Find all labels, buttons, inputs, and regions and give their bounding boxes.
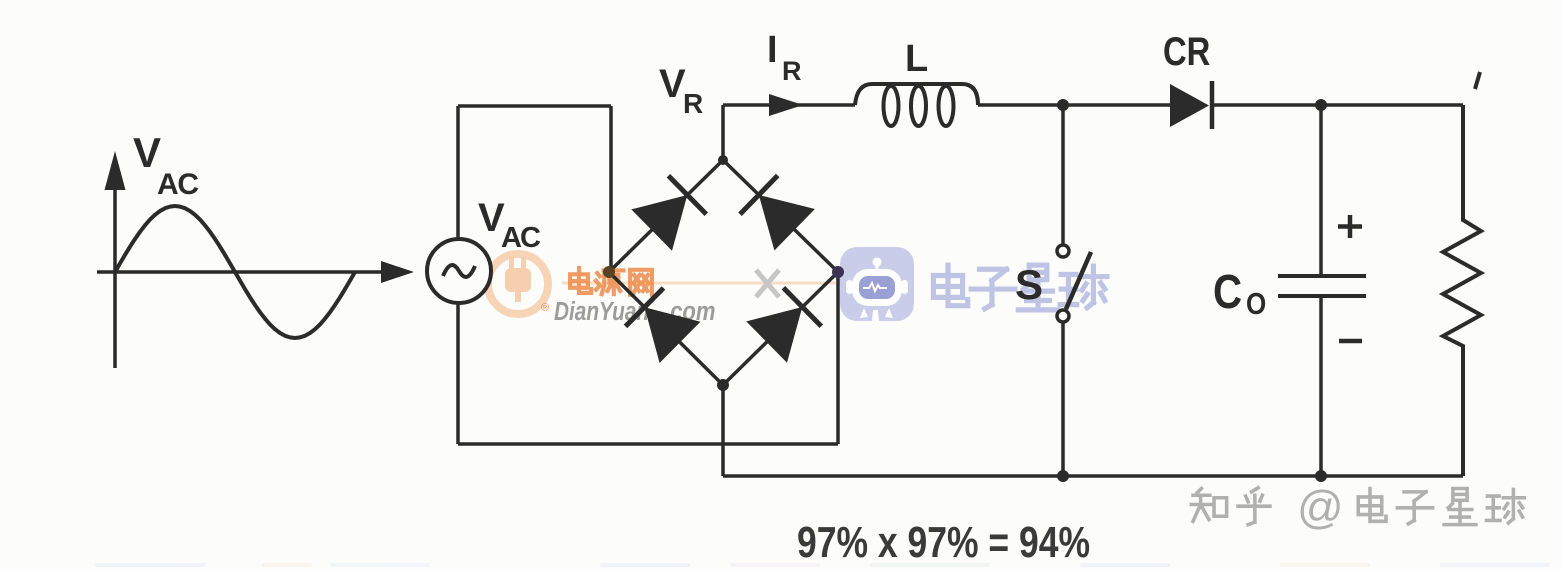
svg-text:AC: AC: [501, 222, 541, 254]
sine plot horizontal axis: [97, 261, 414, 283]
bridge diode D2 top-right: [759, 195, 815, 251]
watermark dianyuan strike line: [562, 282, 900, 285]
label CR: [1163, 29, 1210, 74]
node bridge bottom: [717, 379, 729, 391]
svg-text:L: L: [905, 38, 928, 80]
bridge arm bottom-left: [609, 272, 723, 385]
label minus: [1339, 339, 1362, 344]
wire top rail right: [1212, 103, 1463, 107]
svg-text:C: C: [1213, 266, 1242, 319]
switch S wire bottom: [1061, 322, 1065, 476]
svg-text:®: ®: [541, 302, 549, 314]
resistor load: [1443, 105, 1481, 476]
watermark zhihu credit: [1191, 481, 1524, 533]
svg-text:CR: CR: [1163, 29, 1210, 74]
arrow I_R: [769, 94, 803, 116]
svg-text:V: V: [659, 62, 686, 106]
node bridge right: [832, 266, 844, 278]
wire bridge top to rail: [721, 105, 725, 160]
svg-text:DianYuan: DianYuan: [554, 297, 649, 326]
source V_AC: [427, 239, 491, 303]
wire source box bottom: [458, 442, 838, 446]
svg-text:R: R: [782, 56, 802, 86]
svg-text:AC: AC: [157, 168, 199, 201]
node switch top: [1057, 99, 1069, 111]
switch S wire top: [1061, 105, 1065, 245]
label V_R: [659, 62, 703, 119]
wire source box left: [456, 106, 460, 444]
watermark dianyuan logo ring: [488, 254, 548, 314]
wire source box top: [458, 104, 611, 108]
wire bridge right to bottom: [836, 272, 840, 444]
svg-text:R: R: [683, 88, 703, 119]
watermark robot icon: [840, 247, 914, 321]
bridge arm top-right: [723, 160, 838, 272]
svg-text:S: S: [1015, 261, 1043, 308]
label plus: [1338, 215, 1362, 238]
bottom edge smudges: [95, 563, 1550, 567]
svg-text:O: O: [1246, 287, 1266, 322]
svg-text:@: @: [1297, 481, 1344, 533]
node switch bottom: [1057, 470, 1069, 482]
tick mark top right: [1475, 72, 1480, 89]
bridge arm top-left: [609, 160, 723, 272]
inductor L: [855, 84, 978, 126]
node capacitor bottom: [1315, 470, 1327, 482]
wire top rail left: [723, 103, 855, 107]
wire source box right: [609, 106, 613, 271]
label I_R: [767, 29, 802, 86]
label V_AC source: [478, 196, 541, 254]
diode CR: [1170, 81, 1212, 129]
label V_AC waveform: [133, 129, 199, 201]
watermark text dianzixingqiu: [933, 265, 1106, 310]
bridge arm bottom-right: [723, 272, 838, 385]
switch S contacts and blade: [1057, 245, 1091, 322]
node bridge top: [718, 155, 728, 165]
node bridge left: [603, 266, 615, 278]
watermark text dianyuanwang: [570, 268, 652, 295]
watermark x mark: [756, 270, 779, 297]
wire top rail middle: [978, 103, 1170, 107]
node capacitor top: [1315, 99, 1327, 111]
bridge diode D4 bottom-right: [746, 307, 802, 363]
label C_O: [1213, 266, 1266, 322]
svg-text:97% x 97% = 94%: 97% x 97% = 94%: [797, 518, 1090, 567]
wire bottom rail: [723, 474, 1463, 478]
sine waveform: [115, 206, 355, 338]
svg-text:I: I: [767, 29, 778, 71]
sine plot vertical axis: [105, 151, 126, 368]
wire bridge bottom drop: [721, 385, 725, 476]
bridge diode D1 top-left: [631, 195, 687, 251]
bridge diode D3 bottom-left: [645, 307, 701, 363]
capacitor C_O: [1278, 105, 1366, 476]
